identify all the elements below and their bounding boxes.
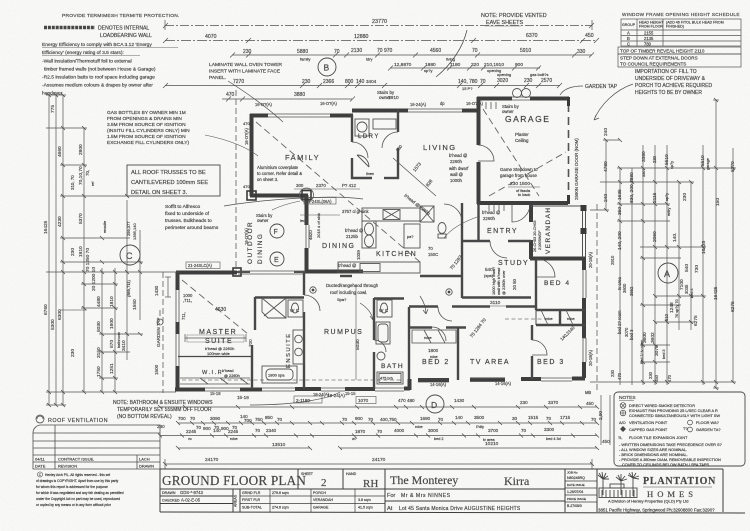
svg-text:3562: 3562 <box>629 286 634 296</box>
svg-text:70 sp?y 70: 70 sp?y 70 <box>675 299 679 318</box>
svg-text:7270: 7270 <box>233 79 244 85</box>
svg-text:HOMES: HOMES <box>647 489 697 499</box>
svg-text:70: 70 <box>196 425 202 430</box>
svg-text:Game Stepdown to: Game Stepdown to <box>500 167 538 172</box>
svg-text:GDS-*-8743: GDS-*-8743 <box>180 490 203 495</box>
svg-text:FLOOR TILE EXPANSION JOINT: FLOOR TILE EXPANSION JOINT <box>629 435 688 440</box>
svg-text:HEIGHTS TO BE BY OWNER: HEIGHTS TO BE BY OWNER <box>635 90 702 96</box>
svg-text:240: 240 <box>603 128 609 136</box>
svg-text:470: 470 <box>243 184 250 189</box>
dimension row 8870 1880 1180 320 210 1910 900 (upper right) <box>394 62 523 73</box>
svg-text:1870: 1870 <box>355 429 366 434</box>
svg-text:15-15: 15-15 <box>345 391 356 396</box>
copyright note <box>36 472 124 507</box>
svg-text:N80246RQ: N80246RQ <box>567 476 585 480</box>
svg-text:230: 230 <box>70 349 76 357</box>
svg-text:4230: 4230 <box>57 216 63 227</box>
svg-text:16-O?(A): 16-O?(A) <box>466 101 483 106</box>
svg-text:1810: 1810 <box>109 296 115 307</box>
svg-text:2245: 2245 <box>228 429 239 434</box>
svg-text:274.6 sqm: 274.6 sqm <box>272 506 289 510</box>
scan noise texture <box>0 0 1 1</box>
svg-text:1251: 1251 <box>109 363 115 374</box>
svg-text:4620: 4620 <box>308 230 313 240</box>
svg-text:B: B <box>627 36 630 41</box>
svg-text:2-1180: 2-1180 <box>296 398 310 403</box>
roof ventilation label <box>36 415 108 424</box>
svg-text:B-27/08/0: B-27/08/0 <box>567 504 582 508</box>
svg-text:under the Copyright Act no par: under the Copyright Act no part may be u… <box>36 497 120 501</box>
svg-text:HAND: HAND <box>346 472 357 476</box>
post dining corner <box>302 191 311 200</box>
svg-text:3110: 3110 <box>490 300 501 306</box>
svg-text:l?dty: l?dty <box>476 425 484 429</box>
svg-text:240: 240 <box>603 194 609 202</box>
svg-text:900: 900 <box>203 426 211 431</box>
svg-text:NOTE: BATHROOM & ENSUITE WINDO: NOTE: BATHROOM & ENSUITE WINDOWS <box>113 400 213 406</box>
svg-text:2130: 2130 <box>351 48 362 54</box>
svg-text:FROM FLOOR: FROM FLOOR <box>639 25 663 29</box>
svg-text:b'head @: b'head @ <box>449 153 467 158</box>
svg-text:PLANTATION: PLANTATION <box>643 476 716 487</box>
svg-text:300: 300 <box>296 183 304 188</box>
note: bathroom and ensuite windows <box>113 392 340 420</box>
svg-text:sp?y: sp?y <box>670 161 674 169</box>
svg-text:,711,: ,711, <box>183 298 192 303</box>
svg-text:bed 4 3d: bed 4 3d <box>546 437 561 441</box>
svg-text:VERANDAH: VERANDAH <box>313 498 333 502</box>
svg-text:775: 775 <box>50 105 56 113</box>
svg-text:140: 140 <box>356 79 365 85</box>
bottom dimension numbers row 3 <box>205 441 499 463</box>
svg-text:WINDOW FRAME OPENING HEIGHT SC: WINDOW FRAME OPENING HEIGHT SCHEDULE <box>622 12 740 17</box>
note: energy efficiency paragraph <box>42 42 178 97</box>
svg-text:ldry: ldry <box>366 57 372 62</box>
interior wall: kitchen/rumpus <box>420 275 462 277</box>
svg-text:PORCH TO ACHIEVE REQUIRED: PORCH TO ACHIEVE REQUIRED <box>635 83 712 89</box>
svg-text:BATH: BATH <box>381 363 404 370</box>
svg-text:SHEET: SHEET <box>301 472 314 476</box>
revision table <box>33 425 160 469</box>
svg-text:EAVE SHEETS: EAVE SHEETS <box>486 20 523 26</box>
svg-text:1550: 1550 <box>132 299 138 310</box>
svg-text:garage: garage <box>706 158 710 170</box>
svg-text:roof including cowl.: roof including cowl. <box>330 290 367 295</box>
left dimension numbers (rotated) <box>43 105 138 377</box>
svg-text:700: 700 <box>244 418 252 423</box>
svg-text:2370: 2370 <box>316 183 326 188</box>
svg-text:230: 230 <box>652 155 657 163</box>
note box: roof trusses cantilevered <box>127 165 220 196</box>
svg-text:14-16(A): 14-16(A) <box>495 381 512 386</box>
dimension row 7270 230 2366 800 140 3404 <box>163 83 562 88</box>
svg-text:GARAGE: GARAGE <box>505 114 550 124</box>
svg-text:Ducted/rangehood through: Ducted/rangehood through <box>326 283 379 288</box>
svg-text:1000h: 1000h <box>450 178 463 183</box>
svg-text:2155: 2155 <box>644 31 654 36</box>
svg-text:3020: 3020 <box>497 78 508 84</box>
svg-text:bed 2? room: bed 2? room <box>617 310 622 334</box>
svg-text:2260h: 2260h <box>483 216 496 221</box>
svg-text:12,8870: 12,8870 <box>394 62 412 68</box>
svg-text:1900: 1900 <box>109 318 115 329</box>
svg-text:-Wall insulation/Thermotuff fo: -Wall insulation/Thermotuff foil to exte… <box>42 59 132 65</box>
svg-text:to back: to back <box>518 193 530 197</box>
svg-text:WC: WC <box>379 308 390 313</box>
interior wall: family/ldry <box>178 110 585 389</box>
svg-text:CAPPED GAS POINT: CAPPED GAS POINT <box>629 427 668 432</box>
job number table <box>567 471 586 509</box>
interior wall: ldry/living <box>397 110 399 132</box>
dimension row 4070 12880 6370 450 <box>163 38 599 43</box>
svg-text:LDRY: LDRY <box>358 134 380 140</box>
svg-text:handover: handover <box>42 91 63 97</box>
svg-text:LAMINATE WALL OVEN TOWER: LAMINATE WALL OVEN TOWER <box>209 62 282 68</box>
right dimension block lines <box>590 100 736 388</box>
svg-text:FAMILY: FAMILY <box>285 153 320 162</box>
tag 21-24SLC(A) left <box>186 101 593 397</box>
svg-text:GRND FLR: GRND FLR <box>242 491 261 495</box>
svg-text:@ 2260h: @ 2260h <box>224 373 240 378</box>
bottom dimension numbers row tags <box>237 393 610 444</box>
svg-text:2115: 2115 <box>652 192 658 203</box>
svg-text:Energy Efficiency to comply wi: Energy Efficiency to comply with BCA 3.1… <box>42 42 152 48</box>
svg-text:230: 230 <box>682 193 688 201</box>
svg-text:GROUND FLOOR PLAN: GROUND FLOOR PLAN <box>162 473 306 488</box>
interior wall: bed2 left / bath right <box>408 307 410 379</box>
interior wall: bath/rumpus <box>373 298 375 340</box>
svg-text:FROM OPENINGS & DRAINS MIN: FROM OPENINGS & DRAINS MIN <box>107 116 182 122</box>
svg-text:570: 570 <box>109 340 115 348</box>
svg-text:70,10,70: 70,10,70 <box>78 166 84 185</box>
svg-text:3300: 3300 <box>544 427 555 432</box>
svg-text:1395,140: 1395,140 <box>132 223 137 240</box>
svg-text:PROVIDE TERMIMESH TERMITE PROT: PROVIDE TERMIMESH TERMITE PROTECTION. <box>62 13 180 19</box>
svg-text:w?: w? <box>352 437 357 441</box>
svg-text:dp: dp <box>440 101 445 106</box>
svg-text:12880: 12880 <box>354 34 369 40</box>
smoke detector symbol hall <box>446 289 452 295</box>
wir wardrobe <box>180 378 250 384</box>
svg-text:A: A <box>627 31 630 36</box>
svg-text:(INSITU FILL CYLINDERS ONLY) M: (INSITU FILL CYLINDERS ONLY) MIN <box>107 128 190 134</box>
svg-text:vc: vc <box>188 437 192 441</box>
svg-text:bed 2: bed 2 <box>434 437 444 441</box>
svg-text:b'head @: b'head @ <box>338 263 356 268</box>
svg-text:70: 70 <box>428 246 433 251</box>
exterior wall: bottom bed3-bed2 <box>572 377 585 381</box>
svg-text:TV AREA: TV AREA <box>470 359 510 366</box>
svg-text:5030: 5030 <box>96 321 102 332</box>
exterior wall: family top <box>250 114 268 118</box>
note: laminate wall oven tower <box>209 62 283 122</box>
svg-text:450: 450 <box>585 33 594 39</box>
svg-text:MB: MB <box>585 390 591 395</box>
svg-text:4070: 4070 <box>205 34 217 40</box>
svg-text:470: 470 <box>617 372 622 380</box>
svg-text:for whom this report is addres: for whom this report is addressed for th… <box>36 485 108 489</box>
svg-text:70: 70 <box>255 428 261 433</box>
svg-text:1800: 1800 <box>428 348 439 353</box>
svg-text:70: 70 <box>342 417 348 422</box>
svg-text:3602: 3602 <box>650 332 656 343</box>
svg-text:bed 3: bed 3 <box>662 349 666 359</box>
svg-text:30: 30 <box>512 416 518 421</box>
svg-text:owner: owner <box>502 109 514 114</box>
svg-text:3600: 3600 <box>622 283 627 293</box>
svg-text:3000: 3000 <box>428 428 439 433</box>
svg-text:70: 70 <box>277 417 283 422</box>
interior wall: garage/living lower <box>477 203 479 240</box>
svg-text:-R2.5 insulation batts to roof: -R2.5 insulation batts to roof space inc… <box>42 75 155 81</box>
svg-text:450: 450 <box>654 374 659 382</box>
svg-text:pa?: pa? <box>407 235 413 239</box>
svg-text:10210: 10210 <box>485 441 499 447</box>
svg-text:20 1200 10: 20 1200 10 <box>91 267 97 291</box>
svg-text:LOADBEARING WALL: LOADBEARING WALL <box>100 33 152 39</box>
svg-text:16-O?(A): 16-O?(A) <box>244 128 249 145</box>
bottom dimension block lines <box>160 395 610 469</box>
svg-text:bathroom: bathroom <box>117 332 121 348</box>
svg-text:family: family <box>300 57 310 62</box>
svg-text:GARDEN TA?: GARDEN TA? <box>696 427 721 432</box>
svg-text:6275: 6275 <box>730 301 736 312</box>
exterior wall: master top / outdoor dining bottom <box>176 271 237 275</box>
svg-text:C: C <box>627 41 630 46</box>
ldry fixtures <box>355 119 396 167</box>
misc leader arrows <box>205 135 258 156</box>
svg-text:DINING: DINING <box>257 233 264 264</box>
svg-text:3150: 3150 <box>96 347 102 358</box>
svg-text:owner: owner <box>257 218 269 223</box>
interior wall: bed4 left <box>535 259 537 310</box>
exterior wall: ldry living top <box>352 109 408 113</box>
svg-text:2015 d of sink: 2015 d of sink <box>316 213 321 238</box>
kitchen bench <box>338 208 420 273</box>
circled letter F <box>270 224 284 238</box>
svg-text:2,90: 2,90 <box>598 411 603 420</box>
svg-text:JOB No: JOB No <box>567 471 578 475</box>
circled letter D <box>426 395 444 413</box>
svg-text:to corner. Refer detail &: to corner. Refer detail & <box>257 171 302 176</box>
bulkhead dashed line above bottom wall <box>182 379 402 381</box>
interior wall: bed4/robe <box>536 309 585 311</box>
svg-text:540: 540 <box>485 267 493 272</box>
exterior wall: right wall bed4/bed3 <box>582 258 586 270</box>
svg-text:2245: 2245 <box>186 429 197 434</box>
brace dashed diagonal family-kitchen <box>256 122 420 262</box>
svg-text:70 970: 70 970 <box>377 48 393 54</box>
svg-text:20-CH03 20-CH03: 20-CH03 20-CH03 <box>533 221 537 252</box>
svg-text:730: 730 <box>694 265 700 273</box>
dimension row 23770 <box>163 20 594 30</box>
curve into garage top (driveway) <box>436 30 467 77</box>
svg-text:470 480: 470 480 <box>398 398 415 403</box>
svg-text:D: D <box>431 400 437 410</box>
svg-text:140, 200: 140, 200 <box>617 231 623 250</box>
svg-text:6275: 6275 <box>693 315 699 326</box>
svg-text:4780: 4780 <box>603 161 609 172</box>
svg-text:330?: 330? <box>642 169 646 177</box>
svg-text:leon: leon <box>300 218 307 223</box>
svg-text:RH: RH <box>363 478 378 490</box>
svg-text:STEP DOWN AT EXTERNAL DOORS: STEP DOWN AT EXTERNAL DOORS <box>620 56 698 61</box>
circled letter E <box>270 252 284 266</box>
svg-text:1690: 1690 <box>420 416 431 421</box>
svg-text:of drawings is COPYRIGHT. Apar: of drawings is COPYRIGHT. Apart from use… <box>36 479 119 483</box>
svg-text:sp?y: sp?y <box>424 68 432 73</box>
svg-text:SUB-TOTAL: SUB-TOTAL <box>242 506 262 510</box>
svg-text:opening: opening <box>497 72 511 77</box>
svg-text:70: 70 <box>377 429 383 434</box>
master bed dimension line 4630 <box>182 312 296 342</box>
exterior wall: family left <box>175 97 585 390</box>
svg-text:DATE: DATE <box>35 464 46 469</box>
svg-text:MASTER: MASTER <box>199 329 237 336</box>
svg-text:CONNECTED SIMULTANEOUSLY WITH: CONNECTED SIMULTANEOUSLY WITH LIGHT SW <box>629 413 720 418</box>
svg-text:ALL ROOF TRUSSES TO BE: ALL ROOF TRUSSES TO BE <box>131 170 206 176</box>
svg-text:robe: robe <box>430 355 438 359</box>
interior wall: wir divider <box>251 345 253 389</box>
brace dashed diagonal garage <box>483 109 539 196</box>
svg-text:CONTRACT ISSUE.: CONTRACT ISSUE. <box>58 457 94 462</box>
verandah edge posts <box>531 206 586 258</box>
note aluminium coverplate <box>257 165 302 182</box>
exterior wall: garage bottom <box>477 201 568 205</box>
note: soffit to alfresco <box>165 197 363 231</box>
svg-text:470: 470 <box>243 121 250 126</box>
svg-text:1430: 1430 <box>154 285 159 296</box>
svg-text:2260h: 2260h <box>339 269 352 274</box>
svg-text:ENTRY: ENTRY <box>487 228 518 235</box>
svg-text:robe: robe <box>567 317 575 321</box>
svg-text:70: 70 <box>368 417 374 422</box>
svg-text:fixed to underside of: fixed to underside of <box>165 211 210 217</box>
svg-text:A-02-E-05: A-02-E-05 <box>181 498 201 503</box>
svg-text:bed 2/ tv room: bed 2/ tv room <box>640 340 644 364</box>
svg-text:2060: 2060 <box>652 231 658 242</box>
svg-text:TOP OF TIMBER REVEAL HEIGHT 21: TOP OF TIMBER REVEAL HEIGHT 2110 <box>620 49 705 54</box>
svg-text:450: 450 <box>586 401 594 406</box>
svg-text:F: F <box>274 229 278 236</box>
svg-text:4630: 4630 <box>215 307 226 313</box>
svg-text:bed 3: bed 3 <box>629 329 634 340</box>
svg-text:6760: 6760 <box>43 304 49 315</box>
svg-text:ROOF VENTILATION: ROOF VENTILATION <box>48 418 108 424</box>
door arcs <box>237 132 555 355</box>
svg-text:3090: 3090 <box>210 416 221 421</box>
wall: dining left <box>305 195 309 225</box>
svg-text:SUITE: SUITE <box>205 338 233 345</box>
svg-text:A Division of Henley Propertie: A Division of Henley Properties (QLD) Pt… <box>608 499 688 504</box>
svg-text:Plaster: Plaster <box>515 132 529 137</box>
interior wall: bed2/tv divider <box>457 327 459 380</box>
svg-text:GARDEN TAP: GARDEN TAP <box>156 318 161 347</box>
svg-text:15-18: 15-18 <box>237 395 249 400</box>
svg-text:1070: 1070 <box>358 398 369 403</box>
svg-text:1500: 1500 <box>154 364 159 375</box>
svg-text:15-18: 15-18 <box>210 391 221 396</box>
svg-text:24170: 24170 <box>205 457 219 463</box>
interior wall: hall bottom right <box>409 305 438 307</box>
svg-text:2570: 2570 <box>541 78 552 84</box>
svg-text:robe: robe <box>545 317 553 321</box>
garden tap symbol left <box>157 310 163 325</box>
bath fixtures: wc <box>376 300 403 384</box>
svg-text:perimeter around beams: perimeter around beams <box>165 225 219 231</box>
svg-text:1180: 1180 <box>450 62 461 68</box>
svg-text:900: 900 <box>355 416 363 421</box>
svg-text:800: 800 <box>345 79 354 85</box>
note: termite protection <box>62 13 180 19</box>
svg-text:1635: 1635 <box>617 189 623 200</box>
svg-text:320: 320 <box>471 62 479 68</box>
svg-text:@ 2260h over: @ 2260h over <box>501 270 506 295</box>
svg-text:W.I.R: W.I.R <box>202 370 223 376</box>
svg-text:230: 230 <box>302 79 311 85</box>
svg-text:Mr & Mrs NINNES: Mr & Mrs NINNES <box>401 493 451 499</box>
notes box bottom right <box>614 392 745 467</box>
plantation homes logo: palm trees <box>598 472 639 498</box>
svg-text:470: 470 <box>667 374 672 382</box>
svg-text:150C: 150C <box>428 252 438 257</box>
interior wall: study bottom <box>462 296 531 298</box>
svg-text:2125b: 2125b <box>346 234 359 239</box>
bottom dimension numbers row 2 <box>186 427 561 442</box>
svg-text:1430: 1430 <box>454 398 465 403</box>
svg-text:16-O?(A): 16-O?(A) <box>255 102 272 107</box>
svg-text:DETAIL ON SHEET 3.: DETAIL ON SHEET 3. <box>131 190 188 196</box>
svg-text:3035: 3035 <box>684 284 689 294</box>
svg-text:21-24SL(06A): 21-24SL(06A) <box>306 199 332 204</box>
svg-text:EXCHANGE FILL CYLINDERS ONLY): EXCHANGE FILL CYLINDERS ONLY) <box>107 140 190 146</box>
svg-text:16425: 16425 <box>713 286 719 300</box>
svg-text:3404: 3404 <box>366 79 377 84</box>
interior wall: ensuite top <box>255 296 304 298</box>
svg-text:400,750: 400,750 <box>380 417 397 422</box>
svg-text:robe: robe <box>230 437 238 441</box>
svg-text:ensuite: ensuite <box>103 221 107 233</box>
svg-text:70 1250 70: 70 1250 70 <box>85 248 91 272</box>
svg-text:b'head @: b'head @ <box>482 210 500 215</box>
interior wall: entry/study <box>462 240 490 242</box>
svg-text:16425: 16425 <box>43 220 49 234</box>
svg-text:2: 2 <box>321 477 327 489</box>
svg-text:70: 70 <box>190 416 196 421</box>
svg-text:830, 200 1880: 830, 200 1880 <box>629 172 635 203</box>
svg-text:140, 780: 140, 780 <box>458 79 478 85</box>
svg-text:04/11: 04/11 <box>35 457 45 462</box>
note: gas bottles paragraph <box>107 110 190 146</box>
left dimension block lines <box>46 95 180 405</box>
windows: thin double lines in wall gaps <box>176 97 586 391</box>
svg-text:2260h: 2260h <box>450 159 463 164</box>
svg-text:DATE ISSUE: DATE ISSUE <box>567 483 585 487</box>
svg-text:1750: 1750 <box>96 366 102 377</box>
svg-text:14-16(A): 14-16(A) <box>430 382 447 387</box>
exterior wall: verandah bottom / bed4 top <box>530 257 585 261</box>
svg-text:gas bott?s: gas bott?s <box>530 72 548 77</box>
svg-text:COVER TO CEILINGS BELOW BATH /: COVER TO CEILINGS BELOW BATH / SPA TAPS. <box>622 462 710 467</box>
svg-text:310, 70: 310, 70 <box>70 175 75 190</box>
svg-text:-Assumes medium colours & drap: -Assumes medium colours & drapes by owne… <box>42 83 153 89</box>
circled letter A <box>658 263 678 283</box>
svg-text:2135: 2135 <box>644 36 654 41</box>
svg-text:70: 70 <box>472 48 478 54</box>
svg-text:1.5M FROM SOURCE OF IGNITION: 1.5M FROM SOURCE OF IGNITION <box>107 134 186 140</box>
svg-text:2340: 2340 <box>266 428 277 433</box>
svg-text:230: 230 <box>524 78 533 84</box>
